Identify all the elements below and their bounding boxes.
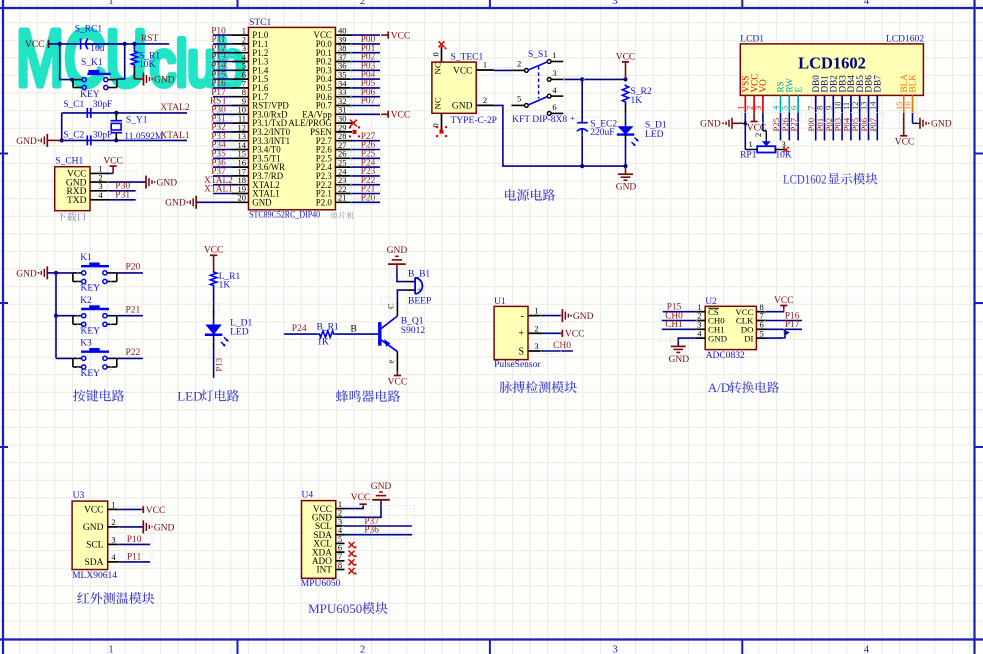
no-connect X S_TEC1 bottom xyxy=(436,126,447,137)
svg-text:1: 1 xyxy=(111,499,115,509)
pin 35 P0.4 of STC1 xyxy=(316,70,352,85)
capacitor S_C1 30pF xyxy=(63,100,112,118)
svg-text:VCC: VCC xyxy=(453,66,473,76)
svg-text:1: 1 xyxy=(552,50,556,60)
power port VCC (reset rail) xyxy=(25,40,49,50)
pin 16 BLK of LCD1 xyxy=(903,74,918,113)
svg-text:S_D1: S_D1 xyxy=(645,120,667,130)
wire BLA to VCC xyxy=(903,113,905,136)
pin 2 P1.1 of STC1 xyxy=(232,34,268,49)
svg-text:GND: GND xyxy=(157,179,178,189)
wire key right leg xyxy=(117,44,125,79)
wire U2 DI tie xyxy=(766,329,785,338)
svg-text:20: 20 xyxy=(238,193,247,203)
wire xyxy=(841,113,843,141)
svg-text:1K: 1K xyxy=(317,338,329,348)
wire pin31 VCC xyxy=(352,113,380,115)
wire xyxy=(352,105,380,107)
pin 22 P2.1 of STC1 xyxy=(316,184,352,199)
wire U3 sda xyxy=(119,561,150,563)
wire xyxy=(213,193,232,195)
wire xyxy=(815,113,817,141)
svg-text:SDA: SDA xyxy=(84,558,103,568)
wire xyxy=(213,166,232,168)
node junction reset-resistor xyxy=(132,42,136,46)
wire pin20 GND xyxy=(196,201,232,203)
ground (reset) xyxy=(144,73,175,86)
svg-text:0: 0 xyxy=(430,123,440,127)
wire xyxy=(117,315,143,317)
pin 39 P0.0 of STC1 xyxy=(316,34,352,49)
wire resistor to base xyxy=(335,333,378,335)
wire xyxy=(352,140,380,142)
svg-text:1: 1 xyxy=(108,0,113,7)
pin 3 P1.2 of STC1 xyxy=(232,43,268,58)
wire xyxy=(117,357,143,359)
pin 8 P1.7 of STC1 xyxy=(232,87,269,102)
wire P24 to resistor xyxy=(284,333,318,335)
diode L_D1 LED xyxy=(205,318,253,346)
ground (crystal) xyxy=(16,134,61,147)
node junction cap gnd xyxy=(60,138,64,142)
capacitor S_C2 30pF xyxy=(63,130,112,145)
pin 8 DB1 of LCD1 xyxy=(815,75,830,113)
wire xyxy=(213,149,232,151)
diode S_D1 LED xyxy=(617,104,667,167)
pin 3 S of U1 xyxy=(518,341,542,357)
wire xyxy=(352,87,380,89)
pin 33 P0.6 of STC1 xyxy=(316,87,352,102)
wire xyxy=(213,43,232,45)
pin 11 P3.1/TxD of STC1 xyxy=(232,114,288,129)
resistor L_R1 1K xyxy=(210,271,240,291)
node junction key-left xyxy=(70,78,74,82)
svg-text:30pF: 30pF xyxy=(93,100,113,110)
pin 13 P3.3/INT1 of STC1 xyxy=(232,131,290,146)
wire U1 gnd xyxy=(543,315,563,317)
power port VCC (U2) xyxy=(774,296,794,312)
wire TEC1 to switch xyxy=(494,69,512,71)
no-connect X U4 pin5 xyxy=(349,542,357,549)
pin 23 P2.2 of STC1 xyxy=(316,175,352,190)
label IR temp module title xyxy=(77,592,154,604)
svg-text:VCC: VCC xyxy=(84,506,104,516)
svg-text:P27: P27 xyxy=(789,117,799,131)
pin 20 GND of STC1 xyxy=(232,193,272,208)
pin 1 VCC of S_CH1 xyxy=(67,164,110,180)
label LCD module title xyxy=(783,171,878,186)
svg-text:U3: U3 xyxy=(73,491,85,501)
power port VCC (LCD) xyxy=(747,113,767,134)
pin 1 VCC of U3 xyxy=(84,499,119,515)
pin 17 P3.7/RD of STC1 xyxy=(232,166,284,181)
svg-text:S: S xyxy=(518,346,524,357)
node junction crystal bottom xyxy=(114,138,118,142)
ground (buzzer) xyxy=(387,246,408,264)
svg-text:P13: P13 xyxy=(214,357,224,371)
svg-text:3: 3 xyxy=(534,341,538,351)
wire S_CH1 RXD xyxy=(110,190,136,192)
pin 7 DB0 of LCD1 xyxy=(806,75,821,113)
wire xyxy=(352,52,380,54)
node junction VSS xyxy=(743,121,747,125)
svg-text:11.0592M: 11.0592M xyxy=(124,132,164,142)
pin 6 P1.5 of STC1 xyxy=(232,70,269,85)
wire xyxy=(213,157,232,159)
svg-text:GND: GND xyxy=(616,183,637,193)
wire xyxy=(876,113,878,141)
selection marks xyxy=(78,41,918,565)
svg-text:LED: LED xyxy=(177,389,202,404)
svg-text:3: 3 xyxy=(612,645,617,654)
pin 9 RST/VPD of STC1 xyxy=(232,96,289,111)
svg-text:P20: P20 xyxy=(361,194,376,204)
label MCU chinese xyxy=(330,212,354,220)
wire xyxy=(352,166,380,168)
capacitor S_RC1 10u xyxy=(75,25,105,54)
ground (MCU pin20) xyxy=(165,196,196,209)
svg-text:KEY: KEY xyxy=(81,369,101,379)
svg-text:0: 0 xyxy=(430,52,440,56)
svg-text:2: 2 xyxy=(534,323,538,333)
pin 4 GND of U2 xyxy=(696,328,727,343)
pin 2 GND of U4 xyxy=(312,508,345,524)
svg-text:S_C2: S_C2 xyxy=(63,130,84,140)
wire reset cap right xyxy=(87,43,125,45)
pin 4 SDA of U4 xyxy=(313,525,344,541)
pin 29 PSEN of STC1 xyxy=(310,122,352,137)
node junction rail-cap xyxy=(580,164,584,168)
svg-text:3: 3 xyxy=(111,534,115,544)
svg-text:P10: P10 xyxy=(127,535,142,545)
node junction reset-right xyxy=(123,42,127,46)
no-connect X RP1 pin3 xyxy=(783,147,789,153)
svg-text:-: - xyxy=(521,311,524,322)
resistor S_R1 10K xyxy=(131,50,160,70)
no-connect X pin30 xyxy=(350,120,357,127)
svg-text:P07: P07 xyxy=(361,97,376,107)
wire xyxy=(797,113,799,141)
pin 3 SCL of U3 xyxy=(86,534,119,550)
svg-text:14: 14 xyxy=(868,101,878,110)
power port VCC (U3) xyxy=(141,506,165,516)
pin 1 VSS of LCD1 xyxy=(736,76,751,113)
svg-text:10K: 10K xyxy=(139,60,156,70)
node junction K2 xyxy=(54,314,58,318)
svg-text:XTAL2: XTAL2 xyxy=(160,103,190,113)
svg-text:P07: P07 xyxy=(868,117,878,131)
connector S_CH1 xyxy=(55,157,90,211)
svg-text:GND: GND xyxy=(83,523,104,533)
wire xyxy=(352,157,380,159)
no-connect X S_TEC1 top xyxy=(439,41,447,49)
svg-text:2: 2 xyxy=(753,133,763,137)
node junction reset-left xyxy=(58,42,62,46)
wire xyxy=(859,113,861,141)
svg-text:KEY: KEY xyxy=(80,90,100,100)
svg-text:21: 21 xyxy=(338,193,347,203)
svg-text:VCC: VCC xyxy=(25,40,45,50)
wire S_CH1 GND xyxy=(110,181,146,183)
pin 6 XDA of U4 xyxy=(312,543,345,559)
label download port xyxy=(57,212,85,221)
svg-text:S_S1: S_S1 xyxy=(528,50,548,60)
wire xyxy=(788,113,790,141)
power port VCC (power circuit) xyxy=(616,52,636,79)
svg-text:U4: U4 xyxy=(302,490,314,500)
svg-text:P11: P11 xyxy=(127,553,142,563)
ADC U2 body xyxy=(705,306,756,349)
svg-text:VCC: VCC xyxy=(146,506,166,516)
svg-text:NC: NC xyxy=(433,97,443,109)
pin 28 P2.7 of STC1 xyxy=(316,131,352,146)
pin 1 - of U1 xyxy=(521,306,543,322)
wire xyxy=(824,113,826,141)
svg-text:e: e xyxy=(387,360,396,364)
svg-text:B: B xyxy=(351,325,357,335)
wire xyxy=(213,105,232,107)
resistor B_R1 1K xyxy=(317,323,339,348)
svg-text:CH0: CH0 xyxy=(553,341,571,351)
svg-text:CH1: CH1 xyxy=(665,320,683,330)
svg-text:GND: GND xyxy=(16,137,37,147)
svg-text:TXD: TXD xyxy=(67,196,87,206)
svg-text:5: 5 xyxy=(760,328,764,338)
svg-text:S_RC1: S_RC1 xyxy=(75,25,103,35)
svg-text:+: + xyxy=(518,329,524,340)
label LED circuit title xyxy=(177,389,239,404)
svg-text:LED: LED xyxy=(230,327,249,337)
svg-text:3: 3 xyxy=(753,106,763,110)
svg-text:P24: P24 xyxy=(292,324,307,334)
svg-text:1K: 1K xyxy=(219,281,231,291)
wire VO to pot wiper xyxy=(762,113,764,131)
svg-text:GND: GND xyxy=(154,523,175,533)
wire xyxy=(850,113,852,141)
svg-text:GND: GND xyxy=(452,102,473,112)
node junction vcc column xyxy=(623,77,627,81)
wire xyxy=(352,193,380,195)
svg-text:MPU6050: MPU6050 xyxy=(308,601,362,616)
pin 2 VCC of LCD1 xyxy=(744,74,759,113)
pin 14 P3.4/T0 of STC1 xyxy=(232,140,281,155)
svg-text:10u: 10u xyxy=(90,44,105,54)
sheet zone numbers xyxy=(108,0,870,654)
svg-text:1: 1 xyxy=(483,60,487,70)
pin 3 VO of LCD1 xyxy=(753,79,768,113)
pin 0 bottom of S_TEC1 xyxy=(430,113,441,131)
power port VCC (LED) xyxy=(204,246,224,271)
key K2 KEY xyxy=(73,296,117,336)
wire xyxy=(352,184,380,186)
wire pin40 VCC xyxy=(352,34,380,36)
svg-text:XTAL1: XTAL1 xyxy=(204,185,233,195)
svg-text:KEY: KEY xyxy=(81,284,101,294)
svg-text:GND: GND xyxy=(252,197,272,207)
wire xyxy=(213,184,232,186)
pin 24 P2.3 of STC1 xyxy=(316,166,352,181)
pin 7 ADO of U4 xyxy=(312,551,345,567)
svg-text:MLX90614: MLX90614 xyxy=(72,571,117,581)
svg-text:TYPE-C-2P: TYPE-C-2P xyxy=(451,116,497,126)
MCU STC1 body xyxy=(249,27,336,209)
svg-text:NC: NC xyxy=(433,62,443,74)
potentiometer RP1 10K xyxy=(740,123,792,160)
pin 36 P0.3 of STC1 xyxy=(316,61,352,76)
connector S_TEC1 TYPE-C-2P xyxy=(432,53,497,126)
wire U2 gnd xyxy=(678,338,695,346)
svg-text:S_Y1: S_Y1 xyxy=(126,115,148,125)
wire xyxy=(117,272,143,274)
svg-text:GND: GND xyxy=(700,120,721,130)
wire K2 left xyxy=(56,315,73,317)
no-connect X U4 pin7 xyxy=(349,559,357,566)
pin 6 DO of U2 xyxy=(741,320,766,335)
switch S_S1 KFT DIP-8X8 xyxy=(512,50,568,125)
wire xyxy=(352,175,380,177)
pin 18 XTAL2 of STC1 xyxy=(232,175,280,190)
wire U4 vcc xyxy=(345,504,364,508)
label pulse module title xyxy=(500,381,577,393)
svg-text:S_CH1: S_CH1 xyxy=(55,157,83,167)
wire U2 CH0 xyxy=(662,320,696,322)
wire xyxy=(213,52,232,54)
svg-text:1: 1 xyxy=(749,139,753,149)
svg-text:+: + xyxy=(417,285,421,294)
pin 4 SDA of U3 xyxy=(84,552,119,568)
svg-text:8: 8 xyxy=(338,560,342,570)
svg-text:VO: VO xyxy=(758,79,768,93)
svg-text:KEY: KEY xyxy=(81,326,101,336)
wire U2 pin8 to VCC xyxy=(766,311,784,313)
pin 14 DB7 of LCD1 xyxy=(868,75,883,113)
svg-text:1: 1 xyxy=(534,306,538,316)
power port VCC (pin40) xyxy=(381,32,410,42)
svg-text:GND: GND xyxy=(708,333,727,343)
svg-text:S9012: S9012 xyxy=(401,326,426,336)
pin 40 VCC of STC1 xyxy=(314,26,352,41)
pin 7 CLK of U2 xyxy=(736,311,766,326)
wire xyxy=(352,78,380,80)
capacitor S_EC2 220uF xyxy=(570,79,617,166)
svg-text:INT: INT xyxy=(317,566,333,576)
pin 1 VCC of S_TEC1 xyxy=(476,60,494,70)
svg-text:P2.0: P2.0 xyxy=(316,197,333,207)
svg-text:VCC: VCC xyxy=(103,157,123,167)
svg-text:VCC: VCC xyxy=(565,330,585,340)
svg-text:RP1: RP1 xyxy=(740,151,757,161)
svg-text:DI: DI xyxy=(744,333,753,343)
svg-text:GND: GND xyxy=(154,75,175,85)
svg-text:+: + xyxy=(570,113,575,123)
wire xyxy=(352,201,380,203)
svg-text:P20: P20 xyxy=(126,263,141,273)
crystal S_Y1 11.0592M xyxy=(111,113,164,142)
wire U4 scl xyxy=(345,525,413,527)
svg-text:K3: K3 xyxy=(80,339,92,349)
svg-text:BEEP: BEEP xyxy=(408,297,431,307)
node junction crystal top xyxy=(114,111,118,115)
pin 15 P3.5/T1 of STC1 xyxy=(232,149,281,164)
svg-text:GND: GND xyxy=(165,199,186,209)
pin 37 P0.2 of STC1 xyxy=(316,52,352,67)
label MPU module title xyxy=(308,601,388,616)
svg-text:VCC: VCC xyxy=(351,493,371,503)
wire U3 vcc xyxy=(119,508,141,510)
IMU U4 body xyxy=(302,501,336,579)
key K1 KEY xyxy=(73,253,117,293)
pin 3 RXD of S_CH1 xyxy=(66,181,109,197)
svg-text:E: E xyxy=(793,87,803,93)
svg-text:3: 3 xyxy=(612,0,617,7)
wire xyxy=(352,61,380,63)
svg-text:KFT DIP-8X8: KFT DIP-8X8 xyxy=(512,115,567,125)
pin 12 DB5 of LCD1 xyxy=(850,75,865,113)
label AD module title xyxy=(708,380,779,395)
svg-text:P36: P36 xyxy=(364,526,379,536)
no-connect X U4 pin6 xyxy=(349,551,357,558)
wire xyxy=(352,43,380,45)
svg-text:LCD1602: LCD1602 xyxy=(798,54,866,73)
pin 4 P1.3 of STC1 xyxy=(232,52,269,67)
wire K3 left xyxy=(56,357,73,359)
svg-text:3: 3 xyxy=(552,68,556,78)
sensor U1 body xyxy=(494,306,528,359)
label power circuit title xyxy=(505,189,555,201)
wire U3 gnd xyxy=(119,526,143,528)
svg-text:STC1: STC1 xyxy=(249,18,271,28)
wire key left leg xyxy=(60,44,73,80)
power port VCC (buzzer) xyxy=(388,371,408,387)
wire U4 gnd xyxy=(345,502,382,518)
ground (LCD right) xyxy=(920,118,952,130)
svg-text:220uF: 220uF xyxy=(590,128,614,138)
wire xyxy=(213,140,232,142)
pin 5 DI of U2 xyxy=(744,328,766,343)
wire U2 P15 xyxy=(663,311,696,313)
wire xyxy=(213,96,232,98)
ground (key circuit) xyxy=(16,266,47,279)
svg-text:2: 2 xyxy=(360,0,365,7)
power port VCC (U4) xyxy=(351,493,371,504)
pin 38 P0.1 of STC1 xyxy=(316,43,352,58)
no-connect X pin29 xyxy=(349,126,360,137)
pin 1 CS of U2 xyxy=(696,302,719,317)
node junction cap column xyxy=(580,77,584,81)
pin 16 P3.6/WR of STC1 xyxy=(232,158,285,173)
pin 30 ALE/PROG of STC1 xyxy=(288,114,352,129)
svg-text:LCD1602: LCD1602 xyxy=(783,171,827,186)
pin 2 + of U1 xyxy=(518,323,542,339)
key S_K1 KEY xyxy=(73,58,117,100)
wire xyxy=(352,96,380,98)
ground (LCD left) xyxy=(700,118,732,130)
resistor S_R2 1K xyxy=(622,84,652,106)
svg-text:6: 6 xyxy=(788,106,798,110)
node junction K1 xyxy=(54,271,58,275)
pin 5 XCL of U4 xyxy=(313,534,344,550)
wire xyxy=(213,61,232,63)
svg-text:ADC0832: ADC0832 xyxy=(706,351,745,361)
pin 11 DB4 of LCD1 xyxy=(841,75,856,113)
pin 34 P0.5 of STC1 xyxy=(316,78,352,93)
no-connect X U4 pin8 xyxy=(349,568,357,575)
pin 4 RS of LCD1 xyxy=(771,81,786,112)
svg-text:VCC: VCC xyxy=(204,246,224,256)
svg-text:1K: 1K xyxy=(631,96,643,106)
pin 19 XTAL1 of STC1 xyxy=(232,184,280,199)
svg-text:30pF: 30pF xyxy=(93,130,113,140)
